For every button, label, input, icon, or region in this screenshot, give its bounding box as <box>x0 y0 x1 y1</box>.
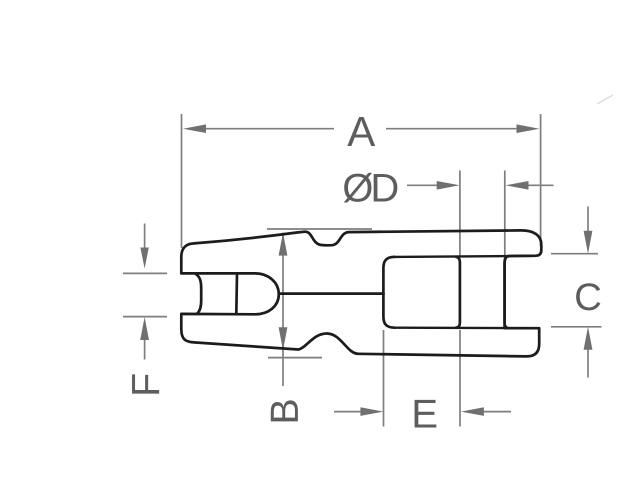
dim E dimension line <box>334 411 511 413</box>
pin capsule divider <box>235 274 238 314</box>
arrowhead A right <box>517 124 540 133</box>
arrowhead OD left <box>437 181 460 190</box>
web left edge with flares <box>456 257 460 328</box>
swivel body top edge (continuous with flange underside) <box>395 256 536 257</box>
dim F bottom extension line <box>123 316 167 318</box>
dim A right extension line <box>540 114 542 246</box>
dim E left extension line <box>383 330 385 427</box>
dim C bottom extension line <box>551 326 602 328</box>
centre line fork to body <box>279 292 384 295</box>
arrowhead B bottom <box>279 327 288 350</box>
label E <box>415 400 437 428</box>
dim C top arrow line <box>587 207 589 233</box>
slot mouth lip curve <box>196 274 201 314</box>
label Oslash <box>344 173 372 203</box>
swivel body bottom edge (continuous with bottom flange top) <box>395 327 540 330</box>
dim OD right extension line <box>504 171 506 257</box>
label F <box>132 374 159 393</box>
dim C bottom arrow line <box>587 349 589 378</box>
dim OD left extension line <box>459 171 461 257</box>
dim A dimension line <box>205 128 518 130</box>
dim E right extension line <box>459 330 461 427</box>
arrowhead F bottom <box>140 317 149 340</box>
label D <box>374 174 398 202</box>
arrowhead B top <box>279 233 288 256</box>
arrowhead E left <box>360 407 383 416</box>
web right edge with flares <box>505 256 509 328</box>
dim OD dimension line <box>407 184 554 186</box>
arrowhead C top <box>584 231 593 254</box>
arrowhead E right <box>461 407 484 416</box>
swivel body left edge with corners <box>383 257 394 328</box>
dim B dimension line <box>282 233 284 386</box>
arrowhead A left <box>183 124 206 133</box>
dim B bottom extension line <box>268 357 322 359</box>
dim B top extension line <box>267 228 372 230</box>
arrowhead F top <box>140 248 148 269</box>
dim F top extension line <box>123 272 167 274</box>
label C <box>576 283 600 310</box>
dim F top arrow line <box>144 224 146 251</box>
part outer silhouette <box>181 230 541 356</box>
arrowhead C bottom <box>584 327 593 350</box>
dim F bottom arrow line <box>144 339 146 360</box>
dim A left extension line <box>181 114 183 248</box>
arrowhead OD right <box>506 181 529 190</box>
label A <box>347 117 375 146</box>
dim C top extension line <box>551 253 598 255</box>
label B <box>271 400 298 421</box>
faint scan mark top right <box>597 95 613 104</box>
